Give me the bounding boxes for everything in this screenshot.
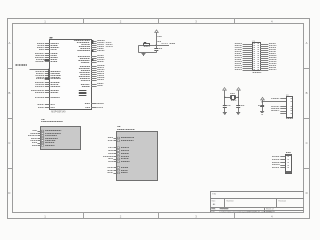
junction VCC wire	[261, 101, 262, 102]
U1 left pins XIN/XOUT group	[35, 53, 58, 62]
P3 designator smudge	[286, 152, 291, 153]
capacitor C1	[154, 45, 158, 53]
title block value date	[211, 208, 229, 211]
wire left vertical of reset loop	[138, 45, 140, 53]
connector P1 body	[253, 43, 261, 71]
C3 label	[241, 105, 244, 106]
power VCC arrow at reset circuit	[155, 30, 159, 45]
junction at VCC/reset wire	[156, 45, 157, 46]
U1 left pins AVcc group	[35, 82, 60, 87]
U3 pin boxes	[117, 137, 119, 174]
capacitor C4	[260, 106, 264, 112]
P1 part label Header 14X2	[253, 72, 262, 73]
net label on long wire	[16, 64, 27, 66]
C4 label	[258, 105, 261, 106]
ground right crystal branch	[236, 113, 240, 115]
P2 pin numbers	[291, 98, 292, 114]
svg-text:D: D	[8, 191, 10, 195]
Y1 designator	[230, 93, 234, 94]
long net labels right of U1	[106, 42, 113, 47]
svg-text:A: A	[306, 41, 308, 45]
svg-text:A: A	[8, 41, 10, 45]
net label RST at wire end	[161, 43, 175, 44]
wire horizontal reset net	[139, 45, 169, 47]
camera module U3 body	[117, 132, 158, 181]
title block label Revision	[278, 201, 286, 203]
U1 right pins P3 port	[79, 65, 104, 81]
svg-text:B: B	[8, 91, 10, 95]
capacitor C3	[236, 106, 240, 113]
U1 right pins P1 port	[74, 40, 105, 52]
junction left crystal	[224, 97, 225, 98]
svg-text:C: C	[306, 141, 308, 145]
junction right crystal	[238, 97, 239, 98]
capacitor C2	[223, 106, 227, 113]
U1 left pins Vref group	[31, 90, 59, 93]
dark blob bottom of vertical wire	[45, 78, 50, 79]
ground at P2 cap	[260, 112, 264, 115]
title block label Sheet of	[266, 208, 274, 211]
svg-text:Number: Number	[227, 201, 234, 203]
title block label Drawn By	[266, 211, 276, 213]
crystal Y1	[225, 95, 238, 99]
svg-text:Sheet of: Sheet of	[266, 208, 274, 211]
title block lines	[210, 191, 304, 212]
U2 inner pin names	[45, 130, 61, 146]
P2 pin wires	[280, 99, 286, 114]
U1 left pins test pins	[38, 104, 55, 108]
zone labels	[8, 19, 307, 218]
svg-text:File:: File:	[211, 211, 215, 213]
U1 right pins P2 port	[78, 55, 104, 63]
U2 designator	[41, 119, 44, 120]
P2 designator	[286, 95, 289, 97]
title block label Size	[212, 201, 217, 203]
svg-text:C:\Users\Documents\Designs\MSP: C:\Users\Documents\Designs\MSP430F149_ca…	[219, 210, 272, 213]
wire bottom of reset loop	[139, 52, 157, 54]
title block label Title	[212, 192, 217, 195]
P3 dark bottom cap	[286, 171, 291, 173]
U1 JTAG pin name block	[79, 90, 87, 96]
op IC U1 body (MSP430F149)	[50, 40, 92, 110]
C1 value label	[159, 48, 162, 49]
svg-text:MSP430F149: MSP430F149	[51, 112, 66, 114]
U3 designator	[117, 126, 120, 127]
U1 right pins P4 port	[81, 83, 103, 87]
U1 left pins P6 analog group	[36, 71, 61, 80]
sheet border inner frame	[13, 24, 304, 213]
wire long horizontal to U1 left	[30, 69, 50, 71]
title block label Date	[211, 208, 216, 211]
U3 pin wires and net labels	[103, 137, 116, 174]
resistor R1	[144, 42, 150, 46]
junction blob left of U1	[44, 59, 49, 61]
connector P3 body	[286, 155, 292, 174]
title block label Number	[227, 201, 234, 203]
svg-text:C: C	[8, 141, 10, 145]
U1 left pins RST/NMI group	[37, 43, 59, 50]
wire VCC to P2 pin2	[262, 101, 286, 103]
Y1 value 32kHz	[231, 100, 236, 101]
U1 designator	[49, 37, 53, 40]
svg-text:Drawn By:: Drawn By:	[266, 211, 276, 213]
title block value A4	[213, 203, 216, 206]
U1 left pins XT2 group	[35, 97, 60, 98]
ground at reset circuit	[142, 53, 146, 56]
svg-text:D: D	[306, 191, 308, 195]
U2 pin wires and net labels	[28, 130, 41, 146]
U1 right pins XT2 pins	[85, 103, 104, 108]
net label smudge on vertical wire	[157, 41, 161, 42]
zone division tick marks	[7, 18, 309, 218]
U2 comment line	[41, 121, 63, 122]
U2 pin boxes	[41, 130, 43, 146]
connector P2 body	[287, 97, 293, 118]
U3 comment line	[117, 129, 134, 130]
power VCC arrow at P2	[261, 97, 265, 105]
vertical wire with junctions at U1 left	[48, 69, 49, 80]
P3 pin wires and net labels	[272, 156, 285, 168]
ground left crystal branch	[223, 113, 227, 115]
R1 value label	[144, 46, 150, 47]
svg-text:Revision: Revision	[278, 201, 286, 203]
P1 left pin wires and net labels	[235, 43, 253, 71]
P3 dark top cap	[286, 154, 291, 156]
P1 pin numbers	[254, 43, 259, 70]
sheet border outer frame	[8, 19, 310, 219]
P1 designator	[252, 41, 255, 43]
P1 right pin wires and net labels	[260, 43, 276, 71]
title block label File	[211, 211, 215, 213]
svg-text:B: B	[306, 91, 308, 95]
U1 part value MSP430F149	[51, 112, 66, 114]
P2 net labels	[271, 98, 279, 111]
U3 inner pin names	[121, 137, 134, 173]
net label smudge near VCC	[157, 36, 161, 37]
P2 part label	[286, 118, 293, 119]
display module U2 body	[41, 127, 81, 150]
P3 pin numbers	[288, 156, 289, 168]
power arrow left crystal branch	[223, 88, 227, 107]
title block value filename	[219, 210, 272, 213]
C2 label	[227, 105, 230, 106]
power arrow right crystal branch	[237, 88, 241, 107]
